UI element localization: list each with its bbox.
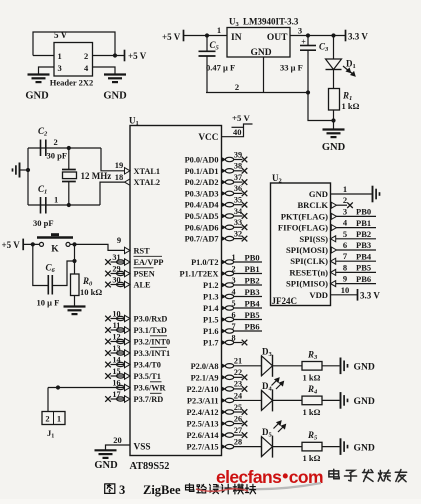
pin arrow U2 pin 2: [331, 202, 336, 208]
caption red scribble: [196, 489, 248, 492]
svg-text:5: 5: [231, 299, 235, 308]
svg-text:19: 19: [115, 160, 124, 170]
svg-text:3.3 V: 3.3 V: [348, 32, 368, 42]
pin 5 P1.4 net PB4: [222, 306, 226, 310]
pin 16 P3.6/WR wire to J1: [48, 387, 125, 389]
pin arrow U2 pin 3: [331, 213, 336, 219]
pin 8 P1.7 stub: [222, 340, 226, 344]
svg-text:P3.5/T1: P3.5/T1: [134, 372, 161, 381]
svg-text:PKT(FLAG): PKT(FLAG): [281, 211, 328, 221]
svg-text:P1.5: P1.5: [203, 316, 218, 325]
svg-text:PB2: PB2: [356, 229, 371, 239]
wire U2 pin 1 to ground: [331, 193, 372, 195]
pin 22 P2.1 stub: [222, 375, 226, 379]
overline WR: [150, 381, 162, 383]
ground at R3: [340, 358, 342, 375]
svg-text:13: 13: [112, 344, 120, 353]
junction C6 / R0: [72, 259, 76, 263]
connector J1 body: [42, 412, 65, 425]
svg-text:39: 39: [234, 150, 242, 159]
junction R1 ground / C3 link: [331, 118, 335, 122]
LED D4: [261, 390, 263, 410]
svg-text:3: 3: [298, 26, 302, 36]
svg-text:VCC: VCC: [198, 133, 218, 143]
svg-text:PB5: PB5: [245, 310, 260, 320]
svg-text:P3.7/RD: P3.7/RD: [134, 395, 164, 404]
svg-text:SPI(MISO): SPI(MISO): [286, 279, 328, 289]
wire U2 pin 9 net PB6: [336, 283, 376, 285]
pin arrow XTAL2: [125, 179, 131, 185]
svg-text:GND: GND: [250, 48, 271, 58]
overline INT0: [150, 335, 167, 337]
svg-text:9: 9: [343, 274, 347, 284]
svg-text:EA/VPP: EA/VPP: [134, 258, 164, 267]
wire crystal bottom rail: [28, 204, 100, 206]
wire C3 down to ground link: [308, 93, 334, 121]
svg-text:23: 23: [234, 380, 242, 389]
wire R1 to ground: [333, 110, 335, 130]
junction at header pin 2 net: [113, 53, 117, 57]
svg-text:P0.5/AD5: P0.5/AD5: [185, 212, 219, 221]
ground under header pin 4: [104, 73, 126, 75]
wire switch to RST: [70, 243, 75, 245]
pin 28 P2.7 wire to LED: [222, 444, 226, 448]
terminal +5 V at reset: [22, 239, 24, 251]
svg-text:P3.0/RxD: P3.0/RxD: [134, 315, 168, 324]
svg-text:P2.3/A11: P2.3/A11: [187, 396, 219, 405]
svg-text:P3.3/INT1: P3.3/INT1: [134, 349, 171, 358]
svg-text:4: 4: [231, 287, 235, 296]
svg-text:P1.2: P1.2: [203, 281, 218, 290]
wire U2 pin 8 net PB5: [336, 271, 376, 273]
watermark swoosh: [216, 483, 321, 489]
wire R3 to ground: [322, 365, 340, 367]
wire R4 to ground: [322, 399, 340, 401]
svg-text:8: 8: [231, 333, 235, 342]
svg-text:PB6: PB6: [245, 322, 260, 332]
pin 21 P2.0 wire to LED: [222, 364, 226, 368]
pin arrow XTAL1: [125, 168, 131, 174]
pin 39 P0.0 stub: [222, 157, 226, 161]
wire VSS pin 20 to ground: [106, 445, 131, 450]
crystal Y1 12 MHz: [68, 148, 70, 170]
junction +5V / C6: [31, 242, 35, 246]
svg-text:P2.0/A8: P2.0/A8: [191, 362, 219, 371]
svg-text:30 pF: 30 pF: [33, 218, 54, 228]
pin 32 P0.7 stub: [222, 236, 226, 240]
svg-text:PB6: PB6: [356, 274, 371, 284]
svg-text:PB4: PB4: [245, 299, 261, 309]
svg-text:10 kΩ: 10 kΩ: [80, 287, 102, 297]
svg-text:35: 35: [234, 196, 242, 205]
LED D3: [261, 356, 263, 376]
wire D3 to R3: [273, 365, 303, 367]
svg-text:10: 10: [341, 285, 350, 295]
svg-text:P3.1/TxD: P3.1/TxD: [134, 326, 167, 335]
overline PSEN: [134, 267, 154, 269]
wire +5V to IN pin 1: [184, 35, 228, 37]
capacitor C5 bottom lead: [206, 56, 208, 93]
pin arrow U2 pin 6: [331, 247, 336, 253]
overline INT1: [150, 346, 167, 348]
svg-text:26: 26: [234, 414, 242, 423]
svg-text:SPI(CLK): SPI(CLK): [290, 256, 328, 266]
capacitor C3: [300, 45, 316, 47]
wire header pin 1: [33, 55, 54, 57]
svg-text:2: 2: [54, 137, 58, 147]
ground at R5: [340, 438, 342, 455]
regulator U3 body: [227, 28, 290, 58]
wire header pin 2 to +5V: [93, 55, 125, 57]
caption figure 3: [105, 484, 115, 493]
pin arrow U2 pin 8: [331, 269, 336, 275]
junction ground / rail: [26, 168, 30, 172]
svg-text:37: 37: [234, 173, 242, 182]
wire D1 to R1: [333, 70, 335, 89]
wire U2 pin 6 net PB3: [336, 249, 376, 251]
svg-text:SPI(MOSI): SPI(MOSI): [286, 245, 328, 255]
svg-text:K: K: [51, 245, 59, 255]
ground at U2 pin 1: [372, 186, 374, 203]
pin 38 P0.1 stub: [222, 169, 226, 173]
svg-text:30 pF: 30 pF: [47, 151, 68, 161]
svg-text:PB3: PB3: [356, 240, 371, 250]
wire +5V loop from header pin 1 to pin 2 net: [33, 32, 115, 56]
LED D5: [261, 437, 263, 457]
svg-text:+5 V: +5 V: [162, 32, 181, 42]
pin 11 stub: [111, 329, 125, 331]
pin arrow RST: [125, 247, 131, 253]
resistor R5: [302, 442, 322, 451]
svg-text:10 μ F: 10 μ F: [37, 298, 60, 308]
pin 3 P1.2 net PB2: [222, 283, 226, 287]
junction crystal bottom: [67, 203, 71, 207]
svg-text:P0.7/AD7: P0.7/AD7: [185, 235, 219, 244]
svg-text:16: 16: [112, 378, 120, 387]
wire U3 GND pin down: [263, 57, 265, 93]
svg-text:2: 2: [343, 195, 347, 205]
pin 35 P0.4 stub: [222, 203, 226, 207]
svg-text:2: 2: [84, 51, 88, 61]
pin 27 P2.6 stub: [222, 433, 226, 437]
svg-text:P0.6/AD6: P0.6/AD6: [185, 223, 219, 232]
terminal 3.3 V: [345, 30, 347, 42]
svg-text:+5 V: +5 V: [232, 113, 250, 123]
svg-text:P2.1/A9: P2.1/A9: [191, 373, 219, 382]
svg-text:PB1: PB1: [356, 218, 371, 228]
svg-text:8: 8: [343, 262, 347, 272]
svg-text:GND: GND: [354, 362, 375, 373]
pin 15 stub: [111, 375, 125, 377]
svg-text:PB1: PB1: [245, 264, 260, 274]
RF module U2 JF24C body: [271, 183, 331, 306]
svg-text:5 V: 5 V: [54, 30, 68, 40]
svg-text:5: 5: [343, 229, 347, 239]
svg-text:40: 40: [233, 127, 242, 137]
LED D1: [326, 59, 342, 70]
terminal 3.3 V at U2: [357, 289, 359, 301]
pin 36 P0.3 stub: [222, 191, 226, 195]
svg-text:1: 1: [231, 253, 235, 262]
svg-text:6: 6: [231, 310, 235, 319]
svg-text:P1.1/T2EX: P1.1/T2EX: [180, 270, 219, 279]
svg-text:1 kΩ: 1 kΩ: [303, 372, 321, 382]
svg-text:33: 33: [234, 218, 242, 227]
svg-text:PSEN: PSEN: [134, 270, 155, 279]
svg-text:7: 7: [231, 322, 235, 331]
svg-text:1: 1: [217, 25, 221, 35]
pin 26 P2.5 stub: [222, 421, 226, 425]
ground below VSS: [95, 449, 117, 451]
wire header pin 3 to ground: [39, 67, 55, 75]
svg-text:P1.0/T2: P1.0/T2: [191, 258, 218, 267]
svg-text:+5 V: +5 V: [128, 51, 147, 61]
junction C3 / ground rail: [306, 90, 310, 94]
pin 10 stub: [111, 318, 125, 320]
resistor R0: [71, 274, 80, 296]
svg-text:30: 30: [112, 275, 120, 284]
pin 37 P0.2 stub: [222, 180, 226, 184]
svg-text:AT89S52: AT89S52: [130, 461, 170, 472]
svg-text:XTAL2: XTAL2: [134, 178, 161, 187]
junction switch / R0: [72, 242, 76, 246]
pin 13 stub: [111, 352, 125, 354]
svg-text:P2.4/A12: P2.4/A12: [186, 408, 218, 417]
svg-text:JF24C: JF24C: [272, 296, 298, 306]
pin arrow U2 pin 4: [331, 225, 336, 231]
pin 14 stub: [111, 364, 125, 366]
svg-text:OUT: OUT: [267, 33, 288, 43]
resistor R1: [329, 89, 340, 111]
svg-text:14: 14: [112, 355, 120, 364]
svg-text:GND: GND: [354, 442, 375, 453]
junction OUT / D1: [331, 33, 335, 37]
pin 12 stub: [111, 341, 125, 343]
capacitor C6 left lead: [33, 244, 49, 285]
svg-text:IN: IN: [231, 33, 242, 43]
svg-text:P2.2/A10: P2.2/A10: [186, 385, 218, 394]
svg-text:3: 3: [231, 276, 235, 285]
pin 6 P1.5 net PB5: [222, 317, 226, 321]
svg-text:1 kΩ: 1 kΩ: [303, 453, 321, 463]
capacitor C5: [199, 50, 216, 52]
svg-text:RST: RST: [134, 246, 151, 255]
pin number 40 bracket: [232, 126, 244, 128]
svg-text:P0.4/AD4: P0.4/AD4: [185, 201, 219, 210]
wire down to J1: [47, 388, 49, 412]
svg-text:GND: GND: [103, 91, 127, 102]
svg-text:VDD: VDD: [309, 290, 328, 300]
capacitor C6: [47, 275, 49, 295]
terminal +5 V at U3 input: [183, 30, 185, 42]
LED D1 arrows: [343, 66, 355, 76]
svg-text:P1.3: P1.3: [203, 293, 218, 302]
watermark dianzi fashaoyou text: [329, 469, 339, 478]
capacitor C5 top lead: [206, 36, 208, 52]
svg-text:12: 12: [112, 332, 120, 341]
svg-text:GND: GND: [354, 396, 375, 407]
diode D1 anode lead: [333, 36, 335, 60]
svg-text:SPI(SS): SPI(SS): [299, 234, 328, 244]
pin arrow U2 pin 5: [331, 236, 336, 242]
svg-text:20: 20: [113, 435, 122, 445]
wire to XTAL1 pin 19: [101, 148, 125, 171]
svg-text:32: 32: [234, 229, 242, 238]
svg-text:24: 24: [234, 391, 242, 400]
resistor R4: [302, 396, 322, 405]
pin 29 stub: [111, 273, 125, 275]
overline EA/VPP: [134, 255, 163, 257]
wire OUT pin 3 to 3.3V: [290, 35, 346, 37]
svg-text:1: 1: [54, 195, 58, 205]
wire U2 pin 7 net PB4: [336, 260, 376, 262]
svg-text:elecfans•com: elecfans•com: [216, 466, 323, 487]
ground under header pin 3: [28, 73, 50, 75]
overline RD: [150, 392, 162, 394]
pin 4 P1.3 net PB3: [222, 294, 226, 298]
svg-text:21: 21: [234, 357, 242, 366]
svg-text:33 μ F: 33 μ F: [280, 63, 303, 73]
pin arrow U2 pin 7: [331, 258, 336, 264]
connector P1 Header 2X2 body: [54, 43, 93, 77]
svg-text:GND: GND: [322, 142, 346, 153]
svg-text:18: 18: [115, 172, 124, 182]
pin 7 P1.6 net PB6: [222, 329, 226, 333]
svg-text:PB4: PB4: [356, 251, 372, 261]
capacitor C3 top lead: [307, 36, 309, 46]
svg-text:1 kΩ: 1 kΩ: [303, 407, 321, 417]
svg-text:3.3 V: 3.3 V: [360, 290, 380, 300]
wire D5 to R5: [273, 446, 303, 448]
wire U2 pin 3 net PB0: [336, 215, 376, 217]
svg-text:P0.3/AD3: P0.3/AD3: [185, 189, 219, 198]
svg-text:1: 1: [57, 414, 61, 424]
svg-text:3: 3: [58, 63, 62, 73]
svg-text:P1.6: P1.6: [203, 327, 218, 336]
pin 31 stub: [111, 261, 125, 263]
wire U2 pin 10 VDD to 3.3V: [331, 294, 358, 296]
resistor R3: [302, 362, 322, 371]
wire switch node down to R0: [74, 244, 76, 274]
svg-text:P2.6/A14: P2.6/A14: [186, 431, 218, 440]
svg-text:P1.7: P1.7: [203, 339, 218, 348]
wire U2 pin 2 BRCLK stub: [337, 204, 348, 206]
wire D4 to R4: [273, 399, 303, 401]
junction on P3.6 wire: [56, 385, 60, 389]
pin 30 stub: [111, 284, 125, 286]
svg-text:12 MHz: 12 MHz: [81, 171, 112, 181]
svg-text:GND: GND: [25, 91, 49, 102]
wire U2 pin 5 net PB2: [336, 238, 376, 240]
svg-text:ZigBee: ZigBee: [143, 483, 181, 497]
svg-text:P2.7/A15: P2.7/A15: [186, 443, 218, 452]
svg-text:BRCLK: BRCLK: [297, 200, 328, 210]
pin 24 P2.3 wire to LED: [222, 398, 226, 402]
svg-text:PB5: PB5: [356, 263, 371, 273]
svg-text:34: 34: [234, 207, 242, 216]
ground left of crystal: [19, 163, 21, 178]
svg-text:GND: GND: [309, 189, 328, 199]
svg-text:1 kΩ: 1 kΩ: [342, 101, 360, 111]
pin 23 P2.2 stub: [222, 387, 226, 391]
svg-text:+5 V: +5 V: [2, 240, 21, 250]
svg-text:PB3: PB3: [245, 287, 260, 297]
wire R0 to ground: [74, 296, 76, 307]
pin 1 P1.0 net PB0: [222, 260, 226, 264]
svg-text:1: 1: [58, 51, 62, 61]
capacitor C6 right lead: [52, 261, 74, 286]
LED D4 arrows: [272, 378, 284, 389]
LED D5 arrows: [274, 421, 286, 432]
svg-text:0.47 μ F: 0.47 μ F: [206, 63, 235, 73]
svg-text:VSS: VSS: [134, 443, 151, 453]
svg-text:PB2: PB2: [245, 276, 260, 286]
pin 34 P0.5 stub: [222, 214, 226, 218]
capacitor C2: [40, 140, 42, 157]
pin 25 P2.4 stub: [222, 410, 226, 414]
svg-text:29: 29: [112, 264, 120, 273]
svg-text:PB0: PB0: [245, 253, 260, 263]
svg-text:2: 2: [231, 264, 235, 273]
svg-text:31: 31: [112, 253, 120, 262]
svg-text:27: 27: [234, 426, 242, 435]
svg-text:P3.2/INT0: P3.2/INT0: [134, 338, 171, 347]
svg-text:LM3940IT-3.3: LM3940IT-3.3: [243, 17, 299, 27]
svg-text:6: 6: [343, 240, 347, 250]
svg-text:36: 36: [234, 184, 242, 193]
svg-text:P1.4: P1.4: [203, 304, 218, 313]
svg-text:Header 2X2: Header 2X2: [50, 78, 94, 88]
svg-text:2: 2: [235, 82, 239, 92]
svg-text:P2.5/A13: P2.5/A13: [186, 420, 218, 429]
svg-text:FIFO(FLAG): FIFO(FLAG): [278, 223, 328, 233]
junction +5V / C5: [205, 33, 209, 37]
svg-text:1: 1: [343, 184, 347, 194]
terminal +5 V at header: [124, 50, 126, 62]
svg-text:2: 2: [45, 414, 49, 424]
svg-text:3: 3: [119, 483, 125, 497]
svg-text:RESET(n): RESET(n): [289, 267, 328, 277]
ground below R1: [323, 128, 345, 130]
svg-text:PB0: PB0: [356, 207, 371, 217]
svg-text:9: 9: [117, 235, 121, 245]
wire +5V to switch: [23, 243, 39, 245]
wire U2 pin 4 net PB1: [336, 227, 376, 229]
pin 2 P1.1 net PB1: [222, 271, 226, 275]
svg-text:P0.2/AD2: P0.2/AD2: [185, 178, 219, 187]
caption dianlu sheji mokuai text: [186, 484, 194, 492]
ground at R4: [340, 392, 342, 409]
svg-text:11: 11: [113, 321, 121, 330]
svg-text:25: 25: [234, 403, 242, 412]
svg-text:GND: GND: [94, 460, 118, 471]
svg-text:38: 38: [234, 162, 242, 171]
wire R5 to ground: [322, 446, 340, 448]
junction OUT / C3: [306, 33, 310, 37]
svg-text:XTAL1: XTAL1: [134, 167, 161, 176]
junction crystal top: [67, 146, 71, 150]
svg-text:3: 3: [343, 206, 347, 216]
wire ground rail pin 2 of U3: [206, 92, 308, 94]
wire to XTAL2 pin 18: [100, 182, 125, 205]
svg-text:17: 17: [112, 390, 120, 399]
capacitor C1: [40, 197, 42, 214]
switch K: [40, 242, 44, 246]
wire VCC pin 40 to +5V: [222, 124, 253, 137]
svg-text:28: 28: [234, 437, 242, 446]
svg-text:22: 22: [234, 368, 242, 377]
capacitor C3 bottom lead: [307, 50, 309, 92]
